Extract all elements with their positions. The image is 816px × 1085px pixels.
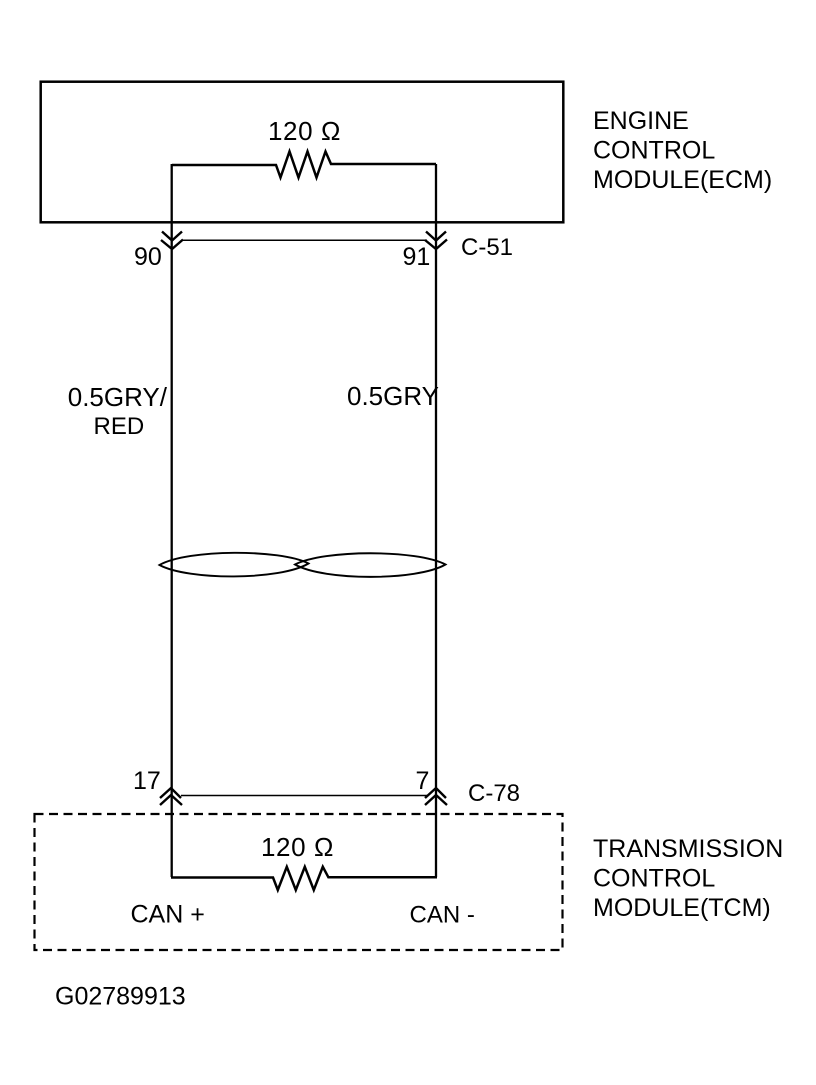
svg-text:0.5GRY/: 0.5GRY/: [68, 382, 168, 412]
TCM module box (dashed): [35, 814, 563, 950]
svg-text:120 Ω: 120 Ω: [268, 116, 341, 146]
svg-text:MODULE(ECM): MODULE(ECM): [593, 166, 772, 194]
svg-text:C-78: C-78: [468, 780, 520, 807]
connector C-78 pin 17 chevron: [160, 788, 182, 805]
svg-text:G02789913: G02789913: [55, 983, 186, 1011]
svg-text:7: 7: [416, 767, 430, 795]
connector C-51 pin 91 chevron: [425, 232, 447, 250]
svg-text:C-51: C-51: [461, 234, 513, 261]
svg-text:120 Ω: 120 Ω: [261, 832, 334, 862]
resistor R1 (terminating resistor inside ECM): [172, 152, 436, 178]
resistor R2 (terminating resistor inside TCM): [171, 867, 437, 890]
svg-text:RED: RED: [94, 413, 145, 440]
connector C-78 pin 7 chevron: [425, 788, 447, 805]
svg-text:TRANSMISSION: TRANSMISSION: [593, 835, 783, 863]
svg-text:MODULE(TCM): MODULE(TCM): [593, 894, 771, 922]
svg-text:91: 91: [403, 243, 431, 271]
wire CAN+ left vertical: [171, 164, 173, 877]
svg-text:CAN -: CAN -: [410, 902, 475, 929]
svg-text:CONTROL: CONTROL: [593, 865, 715, 893]
svg-text:90: 90: [134, 243, 162, 271]
svg-text:ENGINE: ENGINE: [593, 107, 689, 135]
connector C-78 line: [181, 795, 428, 797]
svg-text:17: 17: [133, 767, 161, 795]
svg-text:CAN +: CAN +: [131, 901, 205, 929]
ECM module box: [41, 82, 564, 223]
twisted pair symbol: [160, 553, 309, 577]
wire CAN- right vertical: [435, 164, 437, 877]
connector C-51 line: [181, 239, 427, 241]
svg-text:CONTROL: CONTROL: [593, 137, 715, 165]
svg-text:0.5GRY: 0.5GRY: [347, 381, 439, 411]
connector C-51 pin 90 chevron: [161, 232, 183, 250]
